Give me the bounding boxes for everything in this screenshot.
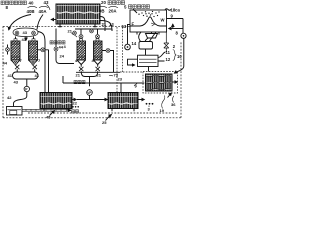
leg of vessel F right xyxy=(158,32,160,35)
svg-text:25: 25 xyxy=(102,120,107,125)
evaporator F vessel 5 xyxy=(130,10,167,32)
motor M circle 14 xyxy=(125,44,131,50)
svg-text:12: 12 xyxy=(166,57,171,62)
wire leader from 5 to condenser box xyxy=(133,9,137,13)
leg exchanger 25 left xyxy=(111,109,113,112)
svg-text:11: 11 xyxy=(166,50,171,55)
absorber dashed enclosure xyxy=(143,72,178,94)
svg-text:43: 43 xyxy=(23,30,28,35)
node nozzle col 21 xyxy=(80,39,83,41)
cone bottom column 21 xyxy=(77,60,86,65)
generator box 14 (rounded) xyxy=(139,42,153,50)
leg exchanger 45 right xyxy=(66,109,68,112)
wire leader 73 xyxy=(109,74,113,77)
wire leader 9 xyxy=(134,84,137,86)
adsorber column 21 (third) xyxy=(77,41,86,60)
svg-text:20A: 20A xyxy=(109,9,118,14)
node top-left title text (CJK label) xyxy=(1,1,26,5)
valve above col3 xyxy=(79,35,83,42)
valve on loop left xyxy=(15,31,19,35)
svg-text:10: 10 xyxy=(177,54,182,59)
pipe W outlet to right xyxy=(167,18,184,20)
water tank 42 xyxy=(7,107,23,116)
svg-text:14: 14 xyxy=(132,41,137,46)
node dots under 22 xyxy=(72,106,79,108)
dashed inner line bottom xyxy=(28,112,178,114)
wire loop to column risers xyxy=(16,37,34,42)
valve 44 on mid riser xyxy=(54,29,74,64)
pump P circle xyxy=(24,86,29,91)
wire VP pump connections xyxy=(77,95,108,99)
valve X below 40B xyxy=(15,65,19,69)
pipe 21 from box 20 to column loop xyxy=(100,17,105,32)
node mid CJK label xyxy=(50,41,65,44)
leg exchanger 25 right xyxy=(133,109,135,112)
wire header loop over columns 40B 40A xyxy=(13,28,38,37)
svg-text:24: 24 xyxy=(60,54,65,59)
pipe 13 from box 20 xyxy=(100,21,112,32)
dashed partition second xyxy=(122,27,124,72)
pipe out of absorber right xyxy=(172,81,178,83)
valve X below col 13 xyxy=(96,67,100,71)
cone bottom column 40B xyxy=(11,60,20,65)
valve X below 40A xyxy=(33,65,37,69)
valve X below col 21 xyxy=(79,67,83,71)
svg-text:21: 21 xyxy=(97,73,102,78)
tank box 12 xyxy=(138,55,159,66)
wire collector right pair xyxy=(76,65,120,87)
wire generator to tank xyxy=(145,49,147,55)
svg-text:19: 19 xyxy=(160,108,165,113)
svg-text:22: 22 xyxy=(73,101,78,106)
long pipe 9 to absorber xyxy=(63,76,144,83)
node nozzle col 40A xyxy=(32,39,35,41)
leg of box 20 left xyxy=(59,24,62,27)
adsorber column 40A xyxy=(29,41,38,60)
valve 2 xyxy=(164,32,169,52)
svg-text:43: 43 xyxy=(14,80,19,85)
svg-text:45: 45 xyxy=(46,115,51,120)
wire second right riser xyxy=(44,60,46,92)
wire absorber feed down xyxy=(120,83,122,93)
heat exchanger 45 (bottom left hatched) xyxy=(40,93,72,109)
leg of box 20 right xyxy=(94,24,97,27)
svg-text:20: 20 xyxy=(101,0,106,5)
valve top-left col3 xyxy=(73,31,77,35)
wire loop to riser 45 xyxy=(38,32,45,61)
svg-text:43: 43 xyxy=(44,0,49,5)
dashed partition 73 xyxy=(116,27,118,92)
svg-text:43: 43 xyxy=(22,37,27,42)
perforated pipe from tank xyxy=(22,109,71,111)
pipe from 40B label sweeping to loop xyxy=(9,15,31,31)
node nozzle col 40B xyxy=(14,39,17,41)
pipe out of exchanger 25 xyxy=(138,99,145,101)
valve above col4 xyxy=(96,35,100,42)
wire bracket over 20B 20A xyxy=(98,6,119,7)
valve on loop right xyxy=(32,31,36,35)
dashed link to absorber enclosure xyxy=(120,71,143,73)
leg exchanger 45 left xyxy=(43,109,45,112)
svg-text:21: 21 xyxy=(76,73,81,78)
wire pump P to tank xyxy=(14,92,27,107)
adsorber column 40B xyxy=(11,41,20,60)
arrow into absorber bottom xyxy=(168,93,172,98)
dashed border left xyxy=(2,26,4,118)
leg of vessel F left xyxy=(136,32,138,35)
wire leader 19 xyxy=(162,96,165,109)
cone bottom column 13 xyxy=(94,60,103,65)
node top-middle CJK label xyxy=(108,1,125,5)
wire leader 25 xyxy=(106,115,112,121)
node nozzle col 13 xyxy=(96,39,99,41)
wire column 40A to right riser xyxy=(48,50,50,92)
drain tray under vessel F xyxy=(146,32,158,38)
valve left of column 40B xyxy=(6,45,10,55)
wire tank 12 to absorber xyxy=(148,67,150,72)
wire from vessel F to motor xyxy=(128,25,131,45)
wire riser right side xyxy=(182,19,184,34)
svg-text:36: 36 xyxy=(171,102,176,107)
heat exchanger 1 (absorber, hatched) xyxy=(146,74,173,91)
dashed border right xyxy=(180,42,182,118)
svg-text:42: 42 xyxy=(7,95,12,100)
pump VP circle 22 xyxy=(87,90,93,96)
pipe from pump 8 down to absorber xyxy=(174,38,184,73)
node label 18a xyxy=(165,9,171,11)
adsorber column 13 (fourth) xyxy=(94,41,103,60)
valve under column 40B xyxy=(14,61,17,64)
svg-text:W: W xyxy=(161,18,165,23)
pump 8 circle xyxy=(181,33,186,38)
svg-text:40B: 40B xyxy=(27,9,35,14)
heat exchanger 25 (bottom middle hatched) xyxy=(108,93,138,109)
arrow up on riser xyxy=(172,24,174,28)
pipe return into vessel F xyxy=(169,28,184,30)
dashed border bottom xyxy=(3,117,181,119)
svg-text:41: 41 xyxy=(35,73,40,78)
svg-text:40: 40 xyxy=(29,1,34,6)
svg-text:41: 41 xyxy=(8,73,13,78)
pipe out of box 20 left with arrow xyxy=(51,19,56,21)
wire collector left pair xyxy=(17,69,35,72)
heat exchanger 20 (condenser, hatched box) xyxy=(56,4,100,24)
arrow out of exchanger 45 xyxy=(72,99,76,101)
svg-text:21: 21 xyxy=(68,29,73,34)
dashed border top xyxy=(3,25,130,27)
valve under column 40A xyxy=(31,61,34,64)
wire leader 45 xyxy=(50,111,55,116)
pipe from 40A label to loop xyxy=(37,15,43,30)
svg-text:23: 23 xyxy=(118,77,123,82)
wire tank to label 11 xyxy=(158,52,166,61)
wire header over columns 21/13 xyxy=(75,29,112,35)
wire bracket over 40B 40A xyxy=(28,6,49,7)
valve right of column 40A xyxy=(38,48,49,52)
wire from F bottom to generator xyxy=(139,32,156,42)
valve right of column 13 xyxy=(102,49,114,73)
recirculation pipe at tank left xyxy=(128,59,138,65)
wire stub 3 xyxy=(148,106,150,108)
node dots and label 3 xyxy=(146,103,154,105)
svg-text:40A: 40A xyxy=(39,9,48,14)
cone bottom column 40A xyxy=(29,60,38,65)
brace for 10 xyxy=(173,50,176,61)
node mid-bottom CJK label xyxy=(74,81,85,84)
svg-text:18ca: 18ca xyxy=(171,8,181,13)
node label 22 (tank pipe) xyxy=(72,110,79,113)
svg-text:73: 73 xyxy=(114,73,119,78)
svg-text:F: F xyxy=(132,22,135,27)
wire leader 36 xyxy=(173,96,174,103)
valve between col3 col4 xyxy=(90,29,94,33)
